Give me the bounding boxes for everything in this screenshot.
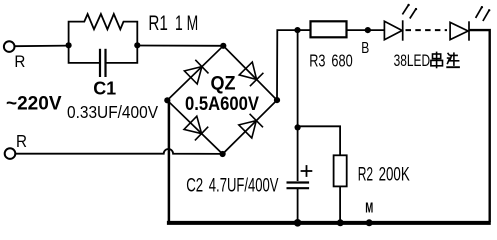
node right of RC block	[134, 42, 140, 48]
svg-text:C1: C1	[93, 79, 116, 99]
diode D4 (bottom-right edge, points to right vertex)	[239, 114, 263, 138]
dashed wire between LEDs	[406, 29, 448, 31]
svg-text:0.33UF/400V: 0.33UF/400V	[67, 102, 158, 122]
LED2 arrows	[476, 6, 491, 21]
resistor R2 (box, vertical)	[334, 155, 347, 186]
wire C2 bottom to rail	[297, 188, 299, 222]
capacitor C1 (bottom branch)	[69, 45, 138, 77]
resistor R1 (zigzag top branch)	[69, 14, 138, 45]
svg-text:38LED: 38LED	[394, 52, 431, 70]
bottom rail (thick)	[167, 221, 491, 225]
svg-text:R1: R1	[148, 12, 168, 35]
svg-text:QZ: QZ	[211, 74, 236, 95]
wire R2 bottom to rail	[339, 186, 341, 222]
svg-text:1 M: 1 M	[175, 12, 198, 35]
diode D1 (top-left edge, points to top vertex)	[184, 60, 208, 84]
node rail C2	[294, 219, 302, 227]
node rail M	[366, 219, 373, 226]
node C2/R2 junction	[295, 124, 301, 130]
wire LED2 to right rail, down	[469, 30, 490, 222]
CJK 连	[446, 52, 460, 67]
LED1	[384, 20, 402, 40]
terminal R bottom-left	[5, 148, 16, 159]
svg-text:~220V: ~220V	[6, 93, 62, 115]
diode D3 (bottom-left edge, points to bottom vertex)	[184, 116, 208, 140]
node left of RC block	[66, 42, 72, 48]
node bridge bottom	[220, 151, 226, 157]
CJK 串	[431, 52, 443, 69]
node bridge right	[274, 97, 280, 103]
node rail R2	[337, 219, 344, 226]
wire terminal1 to RC block	[15, 45, 69, 48]
resistor R3 (box)	[311, 21, 347, 37]
wire middle vertical from junction down to C2	[297, 30, 299, 181]
wire B to LED1	[368, 29, 385, 31]
wire junction to R2 top	[298, 126, 341, 155]
svg-text:200K: 200K	[379, 165, 410, 186]
node junction above C2 line	[294, 27, 300, 33]
LED2	[450, 21, 469, 40]
wire bridge right vertex up and right to R3	[277, 30, 298, 100]
svg-text:680: 680	[331, 50, 352, 70]
capacitor C2 (electrolytic)	[287, 183, 310, 189]
wire RC block to bridge top	[137, 45, 223, 47]
LED1 arrows	[402, 4, 417, 19]
node bridge left	[164, 97, 170, 103]
C2 plus sign	[301, 165, 313, 177]
svg-text:B: B	[361, 40, 369, 57]
svg-text:R: R	[14, 52, 25, 71]
svg-text:C2: C2	[186, 176, 203, 197]
wire bridge left vertex down to bottom rail	[168, 100, 171, 222]
svg-text:0.5A600V: 0.5A600V	[185, 93, 259, 115]
terminal R top-left	[4, 41, 15, 52]
node B	[365, 27, 371, 33]
bridge rectifier QZ : diamond	[167, 46, 277, 154]
diode D2 (top-right edge, points to right vertex)	[239, 62, 263, 86]
node bridge top	[220, 43, 226, 49]
svg-text:R2: R2	[358, 165, 373, 186]
svg-text:4.7UF/400V: 4.7UF/400V	[209, 176, 279, 197]
svg-text:M: M	[365, 200, 373, 217]
svg-text:R: R	[16, 131, 27, 151]
wire junction to R3	[298, 29, 311, 31]
wire terminal2 to bridge bottom with hop over vertical line	[16, 149, 223, 154]
svg-text:R3: R3	[309, 50, 325, 70]
wire R3 to node B	[347, 29, 368, 31]
